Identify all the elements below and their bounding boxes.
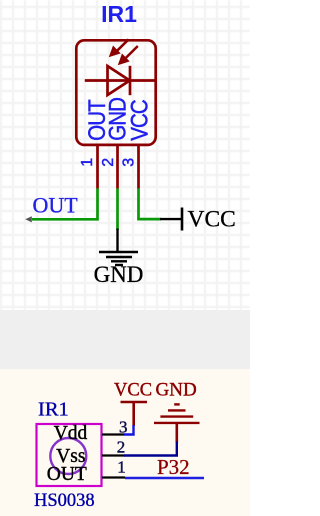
pin 3 lead (bottom): [102, 433, 125, 435]
schematic sheet background (bottom, cream): [0, 369, 250, 516]
svg-text:OUT: OUT: [33, 193, 79, 218]
pin 1 lead: [96, 145, 99, 189]
VCC net flag: [160, 208, 182, 231]
svg-text:GND: GND: [156, 380, 197, 401]
wire pin1 net P32: [125, 477, 204, 480]
separator band: [0, 310, 250, 369]
svg-text:VCC: VCC: [114, 381, 152, 401]
svg-text:IR1: IR1: [38, 399, 69, 421]
VCC power bar symbol: [121, 402, 148, 426]
svg-text:P32: P32: [157, 455, 190, 479]
IR receiver U-body outline: [76, 40, 155, 145]
svg-text:1: 1: [79, 158, 96, 167]
GND earth symbol: [154, 404, 200, 442]
internal circle symbol: [50, 438, 86, 474]
svg-text:GND: GND: [94, 262, 144, 287]
wire VCC net: [139, 188, 162, 219]
pin 3 lead: [137, 145, 140, 189]
incident light arrow 1: [110, 39, 129, 56]
wire GND net: [116, 188, 119, 230]
wire pin2 to GND: [124, 442, 177, 456]
svg-text:Vdd: Vdd: [54, 423, 88, 444]
svg-text:VCC: VCC: [188, 207, 236, 233]
svg-text:IR1: IR1: [101, 1, 137, 27]
wire OUT net: [32, 188, 98, 219]
wire pin3 to VCC: [124, 425, 134, 435]
svg-text:2: 2: [100, 158, 117, 167]
dangling wire end marker: [25, 216, 32, 222]
pin 2 lead: [116, 145, 119, 189]
incident light arrow 2: [119, 46, 138, 64]
pin 2 lead (bottom): [102, 454, 125, 456]
svg-text:1: 1: [117, 458, 126, 477]
svg-text:VCC: VCC: [126, 100, 153, 141]
component body rectangle: [37, 424, 102, 486]
svg-text:2: 2: [117, 438, 126, 457]
schematic sheet background (top, gridded): [0, 0, 250, 310]
pin 1 lead (bottom): [102, 476, 125, 478]
svg-text:OUT: OUT: [47, 464, 87, 485]
ground symbol: [99, 229, 138, 266]
svg-text:HS0038: HS0038: [34, 491, 95, 511]
photodiode symbol: [85, 66, 155, 95]
svg-text:3: 3: [121, 158, 138, 167]
